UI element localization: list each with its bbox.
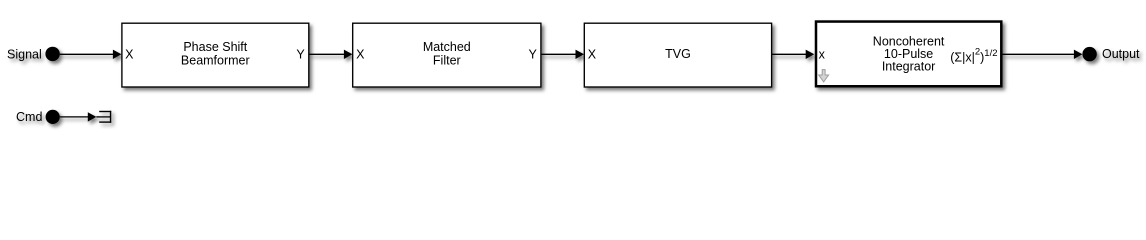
label Noncoherent 10-Pulse Integrator bbox=[873, 35, 945, 74]
svg-text:Phase Shift: Phase Shift bbox=[183, 40, 247, 54]
svg-text:Cmd: Cmd bbox=[16, 110, 42, 124]
svg-text:Beamformer: Beamformer bbox=[181, 54, 250, 68]
label Phase Shift Beamformer bbox=[181, 40, 250, 67]
svg-text:Y: Y bbox=[296, 47, 305, 61]
wire U4 to Output bbox=[1003, 50, 1083, 59]
label Signal bbox=[7, 48, 42, 62]
block U1 Phase Shift Beamformer bbox=[122, 23, 309, 87]
svg-text:Signal: Signal bbox=[7, 48, 42, 62]
svg-text:TVG: TVG bbox=[665, 47, 691, 61]
input port circle Signal bbox=[45, 47, 59, 61]
port label Y of U1 bbox=[296, 47, 305, 61]
label TVG bbox=[665, 47, 691, 61]
wire U2 to U3 bbox=[541, 50, 584, 59]
svg-text:Integrator: Integrator bbox=[882, 60, 936, 74]
label Matched Filter bbox=[423, 40, 471, 67]
block U4 Noncoherent 10-Pulse Integrator bbox=[816, 22, 1001, 87]
svg-text:X: X bbox=[588, 47, 597, 61]
svg-text:X: X bbox=[125, 47, 134, 61]
port label Y of U2 bbox=[529, 47, 538, 61]
wire Cmd to terminator bbox=[60, 112, 111, 121]
wire Signal to U1 bbox=[60, 50, 122, 59]
port label x of U4 bbox=[819, 47, 826, 61]
svg-text:Output: Output bbox=[1102, 47, 1140, 61]
svg-text:Y: Y bbox=[529, 47, 538, 61]
svg-text:Matched: Matched bbox=[423, 40, 471, 54]
block U3 TVG bbox=[584, 23, 771, 87]
port label X of U3 bbox=[588, 47, 597, 61]
label Output bbox=[1102, 47, 1140, 61]
input port circle Cmd bbox=[46, 110, 60, 124]
formula (Sigma|x|^2)^1/2 bbox=[950, 47, 997, 65]
gray insertion arrow icon in U4 bbox=[819, 70, 829, 82]
port label X of U1 bbox=[125, 47, 134, 61]
block U2 Matched Filter bbox=[353, 23, 541, 87]
port label X of U2 bbox=[356, 47, 365, 61]
wire U1 to U2 bbox=[309, 50, 353, 59]
label Cmd bbox=[16, 110, 42, 124]
terminator symbol bbox=[99, 111, 111, 123]
wire U3 to U4 bbox=[772, 50, 815, 59]
output port circle Output bbox=[1082, 47, 1096, 61]
svg-text:Filter: Filter bbox=[433, 54, 461, 68]
svg-text:x: x bbox=[819, 47, 826, 61]
svg-text:X: X bbox=[356, 47, 365, 61]
